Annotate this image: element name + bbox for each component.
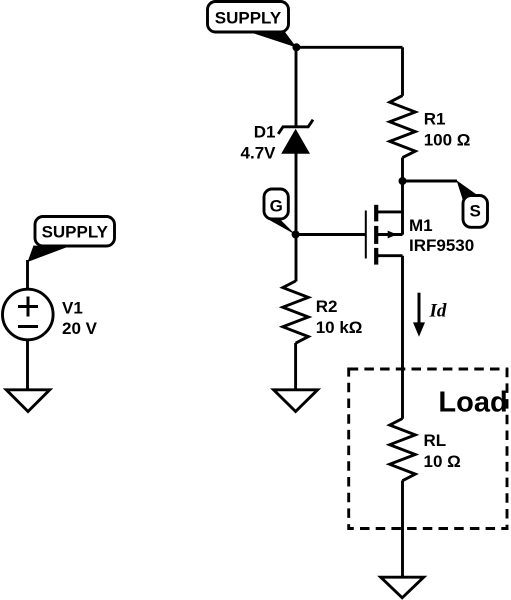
zener diode D1	[278, 120, 313, 154]
wire	[294, 343, 297, 390]
svg-text:R2: R2	[316, 297, 338, 316]
svg-text:100 Ω: 100 Ω	[424, 130, 471, 149]
resistor R1	[390, 96, 416, 158]
junction (supply node)	[292, 43, 300, 51]
label D1 4.7V	[241, 123, 277, 163]
wire	[401, 158, 404, 182]
ground	[6, 390, 49, 412]
resistor RL	[390, 419, 416, 481]
label R2 10 kOhm	[316, 297, 363, 337]
wire	[26, 341, 29, 391]
net label S	[457, 180, 488, 227]
svg-text:D1: D1	[254, 123, 276, 142]
svg-text:4.7V: 4.7V	[241, 143, 277, 162]
junction (gate node)	[292, 231, 300, 239]
current arrow Id	[413, 293, 425, 337]
label R1 100 Ohm	[424, 110, 471, 150]
svg-text:RL: RL	[424, 431, 447, 450]
svg-text:R1: R1	[424, 110, 446, 129]
ground	[381, 577, 424, 598]
wire	[26, 260, 29, 290]
resistor R2	[283, 281, 309, 343]
svg-text:G: G	[270, 196, 283, 215]
svg-text:M1: M1	[409, 216, 433, 235]
net label G	[264, 189, 296, 235]
svg-text:SUPPLY: SUPPLY	[42, 222, 109, 241]
label RL 10 Ohm	[424, 431, 461, 471]
ground	[274, 390, 318, 412]
svg-text:V1: V1	[62, 299, 83, 318]
net label SUPPLY (top)	[208, 2, 297, 48]
wire (source node down to M1)	[401, 181, 404, 235]
wire	[295, 154, 298, 282]
svg-text:10 kΩ: 10 kΩ	[316, 318, 363, 337]
svg-text:S: S	[470, 201, 481, 220]
load box (dashed)	[349, 369, 507, 529]
svg-text:Load: Load	[438, 387, 507, 419]
wire (gate)	[296, 233, 366, 236]
svg-text:10 Ω: 10 Ω	[424, 452, 461, 471]
wire	[401, 481, 404, 578]
junction (source node)	[399, 177, 407, 185]
label M1 IRF9530	[409, 216, 474, 255]
net label SUPPLY (at V1)	[28, 217, 115, 263]
svg-text:IRF9530: IRF9530	[409, 236, 474, 255]
wire	[296, 46, 403, 49]
label V1 20 V	[62, 299, 98, 338]
transistor M1 P-MOSFET	[366, 205, 403, 265]
svg-text:20 V: 20 V	[62, 319, 98, 338]
voltage source V1	[3, 289, 54, 340]
wire	[403, 180, 458, 183]
wire	[295, 47, 298, 127]
wire	[401, 47, 404, 96]
svg-text:SUPPLY: SUPPLY	[215, 8, 282, 27]
wire (drain down to load)	[401, 256, 404, 419]
svg-text:Id: Id	[429, 301, 447, 322]
